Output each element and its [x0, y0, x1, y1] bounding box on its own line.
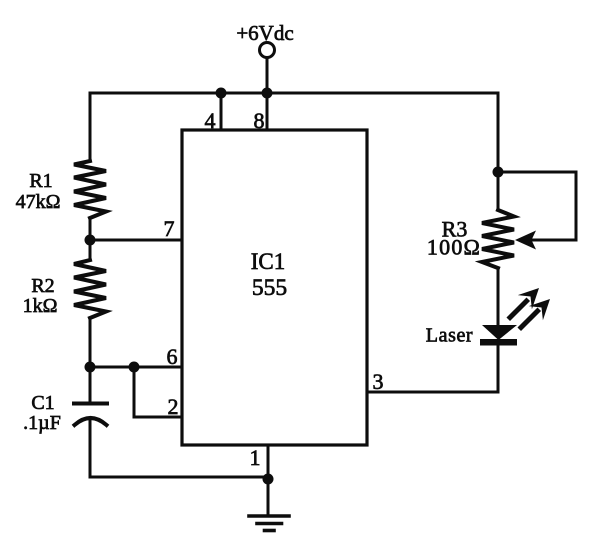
- svg-text:3: 3: [373, 369, 384, 394]
- wire node to R2: [89, 240, 92, 260]
- resistor R3 potentiometer: [482, 210, 514, 268]
- node junction R3 top: [493, 167, 504, 178]
- node junction R1 R2 pin7: [85, 235, 96, 246]
- svg-text:7: 7: [164, 216, 175, 241]
- laser diode D1 cathode bar: [480, 339, 517, 346]
- ground: [249, 516, 289, 531]
- svg-text:R1: R1: [29, 170, 52, 192]
- node junction ground: [263, 474, 274, 485]
- wire pin 4 to IC top: [220, 93, 223, 130]
- svg-text:1kΩ: 1kΩ: [23, 295, 58, 317]
- wire pin 8 to IC top: [266, 93, 269, 130]
- wire supply drop from terminal to rail: [266, 58, 269, 93]
- wire laser to pin 3: [367, 345, 498, 392]
- wire R1 bottom to node: [89, 218, 92, 240]
- wire C1 bottom to bottom rail: [90, 419, 268, 477]
- op IC1 555 box: [182, 130, 367, 445]
- laser emission arrow 1: [510, 288, 539, 318]
- node junction pin2 branch: [129, 362, 140, 373]
- node junction rail pin8: [262, 88, 273, 99]
- wire pin 6: [90, 366, 182, 369]
- laser diode D1 triangle: [482, 325, 517, 340]
- wiper arrow head: [515, 231, 536, 250]
- svg-text:R2: R2: [31, 275, 54, 297]
- wire pin 1 to ground: [267, 445, 270, 515]
- svg-text:2: 2: [168, 394, 179, 419]
- node junction rail pin4: [216, 88, 227, 99]
- resistor R2: [74, 260, 106, 318]
- wire left branch rail to R1: [89, 93, 92, 161]
- wire rail right drop to R3 node: [497, 93, 500, 172]
- svg-text:.1µF: .1µF: [23, 412, 61, 434]
- node junction R2 C1 pin6: [85, 362, 96, 373]
- wire node to C1: [89, 367, 92, 402]
- resistor R1: [74, 161, 106, 218]
- capacitor C1 top plate: [74, 402, 107, 406]
- svg-text:C1: C1: [31, 392, 54, 414]
- wire pin 2 branch: [134, 367, 182, 417]
- wire top supply rail: [90, 92, 498, 95]
- wire pin 7: [90, 239, 182, 242]
- svg-text:6: 6: [167, 344, 178, 369]
- capacitor C1 bottom plate: [75, 418, 107, 425]
- svg-text:47kΩ: 47kΩ: [16, 191, 61, 213]
- svg-text:IC1: IC1: [251, 249, 286, 274]
- svg-text:Laser: Laser: [426, 325, 473, 347]
- wire R2 bottom to node: [89, 318, 92, 367]
- wire R3 to laser: [497, 268, 500, 326]
- svg-text:100Ω: 100Ω: [427, 235, 481, 260]
- svg-text:+6Vdc: +6Vdc: [236, 21, 293, 45]
- wire wiper loop: [498, 172, 576, 240]
- +6Vdc supply terminal: [260, 43, 275, 58]
- svg-text:555: 555: [252, 275, 287, 301]
- laser emission arrow 2: [521, 299, 550, 328]
- svg-text:1: 1: [250, 445, 261, 470]
- wire R3 top lead: [497, 172, 500, 210]
